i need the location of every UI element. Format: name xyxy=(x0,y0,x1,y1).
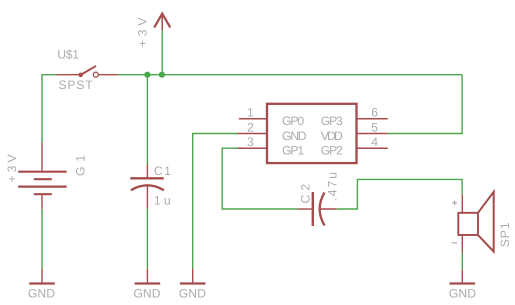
svg-text:U$1: U$1 xyxy=(57,48,79,62)
svg-text:5: 5 xyxy=(371,120,378,134)
svg-text:4: 4 xyxy=(371,135,378,149)
svg-text:+3V: +3V xyxy=(5,153,19,182)
svg-text:GND: GND xyxy=(133,287,160,301)
svg-text:GND: GND xyxy=(282,129,307,143)
svg-text:2: 2 xyxy=(247,120,254,134)
svg-text:SP1: SP1 xyxy=(498,222,512,247)
svg-text:C1: C1 xyxy=(154,164,171,178)
svg-text:+3V: +3V xyxy=(135,17,149,47)
svg-text:.47u: .47u xyxy=(326,172,340,202)
svg-text:GP3: GP3 xyxy=(321,114,343,128)
svg-text:1: 1 xyxy=(247,106,254,120)
svg-text:SPST: SPST xyxy=(58,78,93,92)
svg-text:3: 3 xyxy=(247,135,254,149)
svg-text:GND: GND xyxy=(179,287,206,301)
svg-text:GP0: GP0 xyxy=(282,114,304,128)
svg-text:VDD: VDD xyxy=(321,129,343,143)
svg-text:GND: GND xyxy=(449,287,476,301)
svg-text:6: 6 xyxy=(371,106,378,120)
svg-text:GP2: GP2 xyxy=(321,144,343,158)
svg-text:C2: C2 xyxy=(299,184,313,204)
svg-text:GND: GND xyxy=(28,287,55,301)
svg-text:GP1: GP1 xyxy=(282,144,304,158)
svg-text:G1: G1 xyxy=(73,155,87,176)
svg-text:1u: 1u xyxy=(154,194,171,208)
